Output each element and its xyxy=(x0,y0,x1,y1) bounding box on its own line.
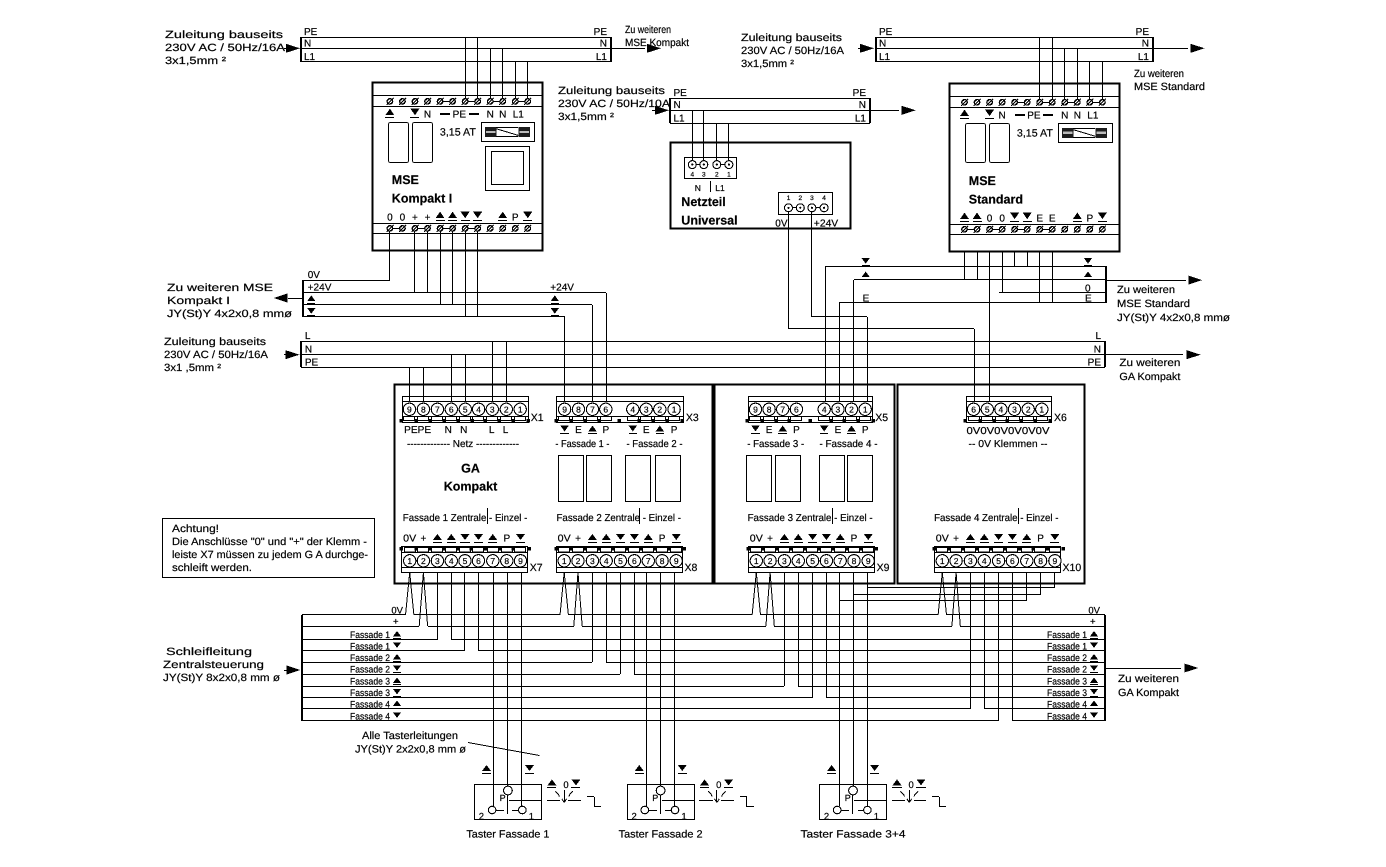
svg-text:Zu weiteren: Zu weiteren xyxy=(1117,284,1175,296)
svg-text:E: E xyxy=(643,425,650,436)
svg-text:P: P xyxy=(671,425,678,436)
svg-text:3x1,5mm ²: 3x1,5mm ² xyxy=(165,55,227,67)
svg-text:N: N xyxy=(1094,345,1101,356)
svg-text:230V AC / 50Hz/16A: 230V AC / 50Hz/16A xyxy=(741,45,844,57)
svg-text:N: N xyxy=(879,39,886,50)
svg-text:P: P xyxy=(503,534,510,545)
svg-text:Zu weiteren MSE: Zu weiteren MSE xyxy=(167,282,273,294)
svg-text:3: 3 xyxy=(490,404,495,414)
svg-text:-- 0V Klemmen --: -- 0V Klemmen -- xyxy=(969,439,1048,450)
svg-text:1: 1 xyxy=(672,404,677,414)
svg-text:Fassade 3: Fassade 3 xyxy=(350,676,390,687)
svg-text:1: 1 xyxy=(874,811,879,822)
svg-text:Fassade 1: Fassade 1 xyxy=(350,641,390,652)
svg-text:P: P xyxy=(851,534,858,545)
svg-text:Standard: Standard xyxy=(969,192,1023,206)
svg-text:4: 4 xyxy=(822,195,826,202)
svg-text:P: P xyxy=(1087,213,1094,224)
svg-text:+: + xyxy=(575,534,581,545)
svg-text:L: L xyxy=(1095,331,1101,342)
svg-text:0V: 0V xyxy=(1088,606,1100,617)
svg-text:2: 2 xyxy=(954,556,959,566)
svg-text:1: 1 xyxy=(518,404,523,414)
svg-text:3: 3 xyxy=(1012,404,1017,414)
svg-text:JY(St)Y 8x2x0,8 mm ø: JY(St)Y 8x2x0,8 mm ø xyxy=(163,672,281,684)
svg-text:P: P xyxy=(500,793,506,803)
svg-text:L: L xyxy=(489,425,495,436)
svg-text:3: 3 xyxy=(644,404,649,414)
svg-text:P: P xyxy=(602,425,609,436)
svg-text:7: 7 xyxy=(838,556,843,566)
svg-text:0V: 0V xyxy=(308,270,321,281)
svg-text:PE: PE xyxy=(1027,110,1041,121)
svg-text:- Fassade 3 -: - Fassade 3 - xyxy=(747,439,804,450)
svg-text:Fassade 4: Fassade 4 xyxy=(1047,699,1087,710)
svg-text:Universal: Universal xyxy=(681,214,737,228)
svg-text:Zu weiteren: Zu weiteren xyxy=(625,24,671,36)
svg-text:230V AC / 50Hz/10A: 230V AC / 50Hz/10A xyxy=(558,98,670,110)
svg-text:8: 8 xyxy=(660,556,665,566)
svg-text:6: 6 xyxy=(971,404,976,414)
svg-text:E: E xyxy=(1049,213,1056,224)
svg-text:GA Kompakt: GA Kompakt xyxy=(1119,371,1180,383)
svg-text:Zentralsteuerung: Zentralsteuerung xyxy=(163,659,264,671)
svg-text:3: 3 xyxy=(702,171,706,178)
svg-text:Fassade 4: Fassade 4 xyxy=(350,699,390,710)
svg-text:PE: PE xyxy=(453,109,467,120)
svg-text:0V: 0V xyxy=(391,606,403,617)
svg-text:Zuleitung bauseits: Zuleitung bauseits xyxy=(165,29,283,41)
svg-text:8: 8 xyxy=(852,556,857,566)
svg-text:5: 5 xyxy=(463,556,468,566)
svg-text:8: 8 xyxy=(504,556,509,566)
svg-text:4: 4 xyxy=(796,556,801,566)
svg-text:0V: 0V xyxy=(936,534,949,545)
svg-text:Schleifleitung: Schleifleitung xyxy=(166,646,252,658)
svg-text:Fassade 3 Zentrale - Einzel -: Fassade 3 Zentrale - Einzel - xyxy=(748,513,873,524)
svg-text:4: 4 xyxy=(630,404,635,414)
svg-text:PE: PE xyxy=(1088,358,1102,369)
svg-text:MSE Standard: MSE Standard xyxy=(1134,81,1205,93)
svg-text:2: 2 xyxy=(1026,404,1031,414)
svg-text:Fassade 1: Fassade 1 xyxy=(1047,641,1087,652)
svg-text:1: 1 xyxy=(863,404,868,414)
svg-text:N: N xyxy=(859,100,866,111)
svg-text:MSE: MSE xyxy=(392,173,419,187)
svg-text:4: 4 xyxy=(690,171,694,178)
svg-text:0: 0 xyxy=(909,780,914,791)
svg-text:9: 9 xyxy=(1053,556,1058,566)
svg-text:L1: L1 xyxy=(596,52,608,63)
svg-text:2: 2 xyxy=(657,404,662,414)
svg-text:P: P xyxy=(793,425,800,436)
svg-text:L1: L1 xyxy=(513,109,525,120)
svg-text:8: 8 xyxy=(1038,556,1043,566)
svg-text:JY(St)Y 4x2x0,8 mmø: JY(St)Y 4x2x0,8 mmø xyxy=(167,308,293,320)
svg-text:0V: 0V xyxy=(750,534,763,545)
svg-text:0V: 0V xyxy=(775,219,788,230)
svg-text:+: + xyxy=(393,617,399,628)
svg-text:2: 2 xyxy=(576,556,581,566)
svg-text:3x1 ,5mm ²: 3x1 ,5mm ² xyxy=(164,362,222,374)
svg-text:L: L xyxy=(305,331,311,342)
svg-text:Fassade 2: Fassade 2 xyxy=(1047,664,1087,675)
svg-text:3,15 AT: 3,15 AT xyxy=(440,127,477,139)
svg-text:9: 9 xyxy=(674,556,679,566)
svg-text:Taster Fassade 2: Taster Fassade 2 xyxy=(619,829,703,841)
svg-text:N: N xyxy=(1061,110,1068,121)
svg-text:+: + xyxy=(953,534,959,545)
svg-text:N: N xyxy=(1074,110,1081,121)
svg-text:E: E xyxy=(835,425,842,436)
svg-text:+: + xyxy=(1090,617,1096,628)
svg-text:3x1,5mm ²: 3x1,5mm ² xyxy=(741,58,795,70)
svg-text:N: N xyxy=(695,183,701,193)
svg-text:PE: PE xyxy=(594,27,608,38)
svg-text:+24V: +24V xyxy=(814,219,839,230)
svg-text:2: 2 xyxy=(421,556,426,566)
svg-text:L1: L1 xyxy=(855,114,867,125)
svg-text:3: 3 xyxy=(810,195,814,202)
svg-text:3x1,5mm ²: 3x1,5mm ² xyxy=(558,111,615,123)
svg-text:P: P xyxy=(652,793,658,803)
svg-text:P: P xyxy=(659,534,666,545)
svg-text:Die Anschlüsse "0" und "+" de: Die Anschlüsse "0" und "+" der Klemm - xyxy=(172,536,368,548)
svg-text:X8: X8 xyxy=(685,562,698,574)
svg-text:5: 5 xyxy=(985,404,990,414)
svg-text:+24V: +24V xyxy=(308,283,332,294)
svg-text:X6: X6 xyxy=(1054,412,1067,424)
svg-text:2: 2 xyxy=(479,811,484,822)
svg-text:Fassade 4: Fassade 4 xyxy=(1047,711,1087,722)
svg-text:3: 3 xyxy=(968,556,973,566)
svg-text:N: N xyxy=(1142,39,1149,50)
svg-text:8: 8 xyxy=(421,404,426,414)
svg-text:4: 4 xyxy=(999,404,1004,414)
svg-text:7: 7 xyxy=(490,556,495,566)
svg-text:7: 7 xyxy=(646,556,651,566)
svg-text:L: L xyxy=(503,425,509,436)
svg-text:Zu weiteren: Zu weiteren xyxy=(1119,357,1180,369)
svg-text:Alle Tasterleitungen: Alle Tasterleitungen xyxy=(362,730,458,742)
svg-text:6: 6 xyxy=(603,404,608,414)
svg-text:L1: L1 xyxy=(674,114,686,125)
svg-text:8: 8 xyxy=(767,404,772,414)
svg-text:5: 5 xyxy=(463,404,468,414)
svg-text:0V0V0V0V0V0V: 0V0V0V0V0V0V xyxy=(967,426,1050,437)
svg-text:Zuleitung bauseits: Zuleitung bauseits xyxy=(164,336,266,348)
svg-text:L1: L1 xyxy=(304,52,316,63)
svg-text:2: 2 xyxy=(849,404,854,414)
svg-text:X1: X1 xyxy=(531,412,544,424)
svg-text:4: 4 xyxy=(604,556,609,566)
svg-text:L1: L1 xyxy=(1138,52,1150,63)
svg-text:2: 2 xyxy=(632,811,637,822)
svg-text:N: N xyxy=(305,345,312,356)
svg-text:E: E xyxy=(766,425,773,436)
svg-text:N: N xyxy=(304,39,311,50)
svg-text:Fassade 1 Zentrale - Einzel -: Fassade 1 Zentrale - Einzel - xyxy=(403,513,528,524)
svg-text:7: 7 xyxy=(590,404,595,414)
svg-text:N: N xyxy=(600,39,607,50)
svg-text:0: 0 xyxy=(716,780,721,791)
svg-text:+24V: +24V xyxy=(550,283,574,294)
svg-text:6: 6 xyxy=(824,556,829,566)
svg-text:JY(St)Y 4x2x0,8 mmø: JY(St)Y 4x2x0,8 mmø xyxy=(1117,312,1231,324)
svg-text:PE: PE xyxy=(879,27,893,38)
svg-text:2: 2 xyxy=(824,811,829,822)
svg-text:7: 7 xyxy=(1024,556,1029,566)
svg-text:L1: L1 xyxy=(879,52,891,63)
svg-text:PE: PE xyxy=(1136,27,1150,38)
svg-text:7: 7 xyxy=(435,404,440,414)
svg-text:9: 9 xyxy=(562,404,567,414)
svg-text:0: 0 xyxy=(563,780,568,791)
svg-text:Zuleitung bauseits: Zuleitung bauseits xyxy=(741,32,842,44)
svg-text:Zuleitung bauseits: Zuleitung bauseits xyxy=(558,85,665,97)
svg-text:Fassade 3: Fassade 3 xyxy=(1047,688,1087,699)
svg-text:X3: X3 xyxy=(686,412,699,424)
svg-text:Fassade 2 Zentrale - Einzel -: Fassade 2 Zentrale - Einzel - xyxy=(557,513,682,524)
svg-text:3: 3 xyxy=(782,556,787,566)
svg-text:1: 1 xyxy=(754,556,759,566)
svg-text:4: 4 xyxy=(822,404,827,414)
svg-text:1: 1 xyxy=(562,556,567,566)
svg-text:MSE: MSE xyxy=(969,174,996,188)
svg-text:PE: PE xyxy=(304,27,318,38)
svg-text:1: 1 xyxy=(407,556,412,566)
svg-text:Zu weiteren: Zu weiteren xyxy=(1118,673,1179,685)
svg-text:X9: X9 xyxy=(877,562,890,574)
svg-text:X10: X10 xyxy=(1063,562,1082,574)
svg-text:E: E xyxy=(1036,213,1043,224)
svg-text:+: + xyxy=(767,534,773,545)
svg-text:Fassade 2: Fassade 2 xyxy=(350,664,390,675)
svg-text:Kompakt I: Kompakt I xyxy=(392,191,452,205)
svg-text:N: N xyxy=(460,425,467,436)
svg-text:9: 9 xyxy=(518,556,523,566)
svg-text:+: + xyxy=(425,212,431,223)
svg-text:MSE Standard: MSE Standard xyxy=(1117,298,1190,310)
svg-text:E: E xyxy=(1085,294,1092,305)
svg-text:5: 5 xyxy=(810,556,815,566)
svg-text:+: + xyxy=(420,534,426,545)
svg-text:5: 5 xyxy=(996,556,1001,566)
svg-text:N: N xyxy=(499,109,506,120)
svg-text:E: E xyxy=(863,294,870,305)
svg-text:Fassade 4: Fassade 4 xyxy=(350,711,390,722)
svg-text:P: P xyxy=(845,793,851,803)
svg-text:N: N xyxy=(674,100,681,111)
svg-text:Taster Fassade 1: Taster Fassade 1 xyxy=(466,829,549,841)
svg-text:Fassade 3: Fassade 3 xyxy=(350,688,390,699)
svg-text:- Fassade 2 -: - Fassade 2 - xyxy=(627,439,683,450)
svg-text:P: P xyxy=(512,212,519,223)
svg-text:- Fassade 1 -: - Fassade 1 - xyxy=(555,439,609,450)
svg-text:1: 1 xyxy=(940,556,945,566)
svg-text:3: 3 xyxy=(435,556,440,566)
svg-text:PE: PE xyxy=(305,358,319,369)
svg-text:P: P xyxy=(862,425,869,436)
svg-text:8: 8 xyxy=(576,404,581,414)
svg-text:5: 5 xyxy=(618,556,623,566)
svg-text:Fassade 1: Fassade 1 xyxy=(350,630,390,641)
svg-text:PE: PE xyxy=(674,88,688,99)
svg-text:4: 4 xyxy=(476,404,481,414)
svg-text:9: 9 xyxy=(407,404,412,414)
svg-text:6: 6 xyxy=(1010,556,1015,566)
svg-text:4: 4 xyxy=(982,556,987,566)
svg-text:7: 7 xyxy=(780,404,785,414)
svg-text:Fassade 3: Fassade 3 xyxy=(1047,676,1087,687)
svg-text:Fassade 2: Fassade 2 xyxy=(1047,653,1087,664)
svg-text:6: 6 xyxy=(449,404,454,414)
svg-text:9: 9 xyxy=(753,404,758,414)
svg-text:Fassade 4 Zentrale - Einzel -: Fassade 4 Zentrale - Einzel - xyxy=(934,513,1058,524)
svg-text:2: 2 xyxy=(768,556,773,566)
svg-text:230V AC / 50Hz/16A: 230V AC / 50Hz/16A xyxy=(164,349,268,361)
svg-text:Kompakt I: Kompakt I xyxy=(167,295,230,307)
svg-text:1: 1 xyxy=(681,811,686,822)
svg-text:N: N xyxy=(998,110,1005,121)
svg-text:P: P xyxy=(1037,534,1044,545)
svg-text:2: 2 xyxy=(504,404,509,414)
svg-text:0: 0 xyxy=(400,212,406,223)
svg-text:0V: 0V xyxy=(558,534,571,545)
svg-text:0: 0 xyxy=(387,212,393,223)
svg-text:6: 6 xyxy=(476,556,481,566)
svg-text:3: 3 xyxy=(590,556,595,566)
svg-text:2: 2 xyxy=(715,171,719,178)
svg-text:0: 0 xyxy=(987,213,993,224)
svg-text:X7: X7 xyxy=(530,562,543,574)
svg-text:------------- Netz -----------: ------------- Netz ------------- xyxy=(407,439,519,450)
svg-text:N: N xyxy=(424,109,431,120)
svg-text:Zu weiteren: Zu weiteren xyxy=(1134,68,1184,80)
svg-text:4: 4 xyxy=(449,556,454,566)
svg-text:L1: L1 xyxy=(1087,110,1099,121)
svg-text:Kompakt: Kompakt xyxy=(444,480,498,494)
svg-text:6: 6 xyxy=(632,556,637,566)
svg-text:Fassade 2: Fassade 2 xyxy=(350,653,390,664)
svg-text:6: 6 xyxy=(794,404,799,414)
svg-text:MSE Kompakt: MSE Kompakt xyxy=(625,37,689,49)
svg-text:X5: X5 xyxy=(875,412,888,424)
svg-text:1: 1 xyxy=(787,195,791,202)
svg-text:PE: PE xyxy=(853,88,867,99)
svg-text:+: + xyxy=(412,212,418,223)
svg-text:Taster Fassade 3+4: Taster Fassade 3+4 xyxy=(801,829,906,841)
svg-text:1: 1 xyxy=(727,171,731,178)
svg-text:N: N xyxy=(445,425,452,436)
svg-text:3: 3 xyxy=(836,404,841,414)
svg-text:230V AC / 50Hz/16A: 230V AC / 50Hz/16A xyxy=(165,42,285,54)
svg-text:0V: 0V xyxy=(403,534,416,545)
svg-text:GA: GA xyxy=(461,462,480,476)
svg-text:- Fassade 4 -: - Fassade 4 - xyxy=(820,439,878,450)
svg-text:N: N xyxy=(487,109,494,120)
svg-text:schleift werden.: schleift werden. xyxy=(172,562,252,574)
svg-text:Fassade 1: Fassade 1 xyxy=(1047,630,1087,641)
svg-text:2: 2 xyxy=(798,195,802,202)
svg-text:1: 1 xyxy=(529,811,534,822)
svg-text:0: 0 xyxy=(999,213,1005,224)
svg-text:JY(St)Y 2x2x0,8 mm ø: JY(St)Y 2x2x0,8 mm ø xyxy=(355,744,467,756)
svg-text:3,15 AT: 3,15 AT xyxy=(1017,128,1054,140)
svg-text:L1: L1 xyxy=(715,183,725,193)
svg-text:1: 1 xyxy=(1039,404,1044,414)
svg-text:Achtung!: Achtung! xyxy=(172,523,219,535)
svg-text:9: 9 xyxy=(866,556,871,566)
svg-text:PEPE: PEPE xyxy=(404,425,431,436)
svg-text:GA Kompakt: GA Kompakt xyxy=(1118,687,1179,699)
svg-text:leiste X7 müssen zu jedem G A: leiste X7 müssen zu jedem G A durchge- xyxy=(172,549,369,561)
svg-text:Netzteil: Netzteil xyxy=(681,195,725,209)
svg-text:E: E xyxy=(575,425,582,436)
